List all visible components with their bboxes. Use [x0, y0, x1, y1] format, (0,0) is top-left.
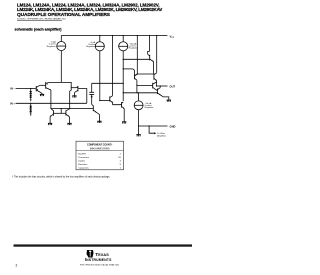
svg-text:Regulator: Regulator: [145, 106, 154, 109]
svg-text:Regulator: Regulator: [86, 45, 95, 48]
wire to output base: [123, 92, 157, 94]
wire: rail drop x=156.7: [156, 36, 158, 73]
transistor QC (pulldown darlington 1): [153, 82, 157, 89]
svg-text:Resistors: Resistors: [78, 163, 88, 166]
wire first-stage output bus: [51, 108, 93, 110]
current regulator 1 (6uA): [57, 36, 66, 83]
wire: rail drop x=137.3: [136, 36, 138, 75]
wire IN+ line: [16, 102, 87, 104]
label reg4: [145, 102, 154, 109]
node OUT: [157, 85, 168, 87]
svg-text:Regulator: Regulator: [47, 45, 56, 48]
transistor Q2: [46, 82, 51, 90]
svg-text:LM224K, LM224KA, LM324K, LM324: LM224K, LM224KA, LM324K, LM324KA, LM2902…: [17, 7, 162, 12]
diode D1: [29, 89, 32, 102]
wire to other amplifiers: [149, 126, 156, 134]
transistor QA (output top darlington 1): [123, 51, 153, 73]
svg-text:Capacitors: Capacitors: [78, 166, 89, 169]
wire: rail drop x=149.5: [149, 36, 151, 52]
svg-text:IN −: IN −: [10, 88, 15, 91]
ground for Q5: [48, 123, 52, 125]
transistor Q9 (second stage): [92, 104, 100, 121]
node 100uA junctions: [123, 59, 124, 60]
svg-text:SLOS066J – SEPTEMBER 1975 – RE: SLOS066J – SEPTEMBER 1975 – REVISED JANU…: [17, 18, 66, 21]
diode D3: [29, 103, 32, 116]
current regulator 3 (100uA): [119, 36, 128, 102]
svg-text:Amplifiers: Amplifiers: [157, 134, 166, 137]
wire IN- line: [16, 88, 37, 90]
svg-text:Regulator: Regulator: [129, 47, 138, 50]
svg-text:† This includes the bias circu: † This includes the bias circuitry, whic…: [12, 175, 110, 178]
transistor QD (pulldown darlington 2): [155, 86, 169, 100]
header rule: [17, 20, 62, 22]
mirror base link: [53, 109, 66, 114]
VCC rail: [61, 35, 167, 37]
wire to Qc base: [137, 84, 153, 86]
svg-text:2: 2: [16, 263, 18, 267]
transistor QB (output top darlington 2): [154, 73, 157, 86]
wire Q2 collector down to mirror: [51, 90, 54, 111]
transistor Q3: [70, 85, 77, 109]
diode D4: [29, 110, 32, 116]
wire Q7 emitter node to Qb base: [137, 73, 154, 75]
svg-text:GND: GND: [170, 125, 176, 129]
current regulator 2 (4uA): [95, 36, 104, 101]
svg-text:schematic (each amplifier): schematic (each amplifier): [15, 28, 63, 32]
svg-text:IN +: IN +: [10, 102, 15, 105]
ground for QD: [167, 100, 171, 102]
wire: input-stage emitter rail (table): [50, 82, 71, 84]
footer bar: [14, 244, 193, 246]
svg-text:COMPONENT COUNT†: COMPONENT COUNT†: [87, 144, 113, 146]
label reg2: [86, 41, 96, 48]
svg-text:Diodes: Diodes: [78, 160, 86, 162]
svg-text:(EACH AMPLIFIER): (EACH AMPLIFIER): [90, 147, 110, 150]
current regulator 4 (50uA): [134, 93, 143, 135]
svg-text:Epi-FET: Epi-FET: [78, 153, 87, 155]
ground for Q6: [67, 123, 71, 125]
svg-text:INSTRUMENTS: INSTRUMENTS: [85, 257, 112, 262]
node 4uA junction: [99, 100, 100, 101]
diode D2: [29, 95, 32, 102]
capacitor Cc: [89, 83, 123, 104]
transistor Qa: [110, 96, 122, 105]
ground for Q4: [72, 96, 76, 98]
ground for Q9: [97, 121, 101, 123]
rail junction dots: [99, 35, 100, 36]
ground for reg4: [136, 135, 140, 137]
svg-text:Transistors: Transistors: [78, 156, 90, 159]
transistor Q6 (mirror right): [66, 109, 70, 124]
svg-text:QUADRUPLE OPERATIONAL AMPLIFIE: QUADRUPLE OPERATIONAL AMPLIFIERS: [17, 12, 110, 18]
transistor Q4: [74, 86, 86, 103]
wire: rail drop x=112.5: [112, 36, 114, 96]
label reg3: [129, 42, 138, 49]
label reg1: [47, 41, 57, 48]
ground for Qb: [122, 122, 126, 124]
TI logo symbol: [87, 250, 94, 258]
transistor Qb: [122, 102, 125, 122]
ground for Q1: [40, 94, 44, 96]
transistor Q5 (mirror left): [50, 110, 53, 123]
transistor Q7 (pnp): [123, 69, 137, 93]
node GND rail: [139, 125, 168, 127]
transistor Q1: [36, 85, 46, 94]
svg-text:OUT: OUT: [170, 85, 176, 89]
